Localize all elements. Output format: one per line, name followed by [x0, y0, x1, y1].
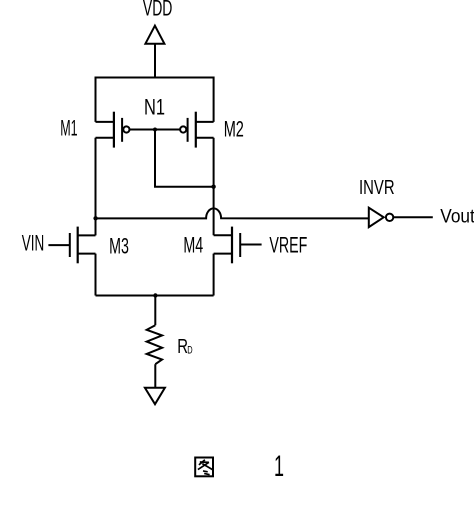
svg-text:VREF: VREF [269, 232, 307, 257]
svg-text:1: 1 [274, 450, 284, 483]
svg-text:INVR: INVR [359, 176, 395, 199]
svg-text:VDD: VDD [143, 0, 173, 21]
svg-text:M1: M1 [60, 115, 77, 140]
svg-text:M4: M4 [183, 233, 203, 258]
svg-text:D: D [187, 345, 192, 357]
svg-text:VIN: VIN [22, 230, 45, 255]
svg-text:N1: N1 [144, 94, 165, 119]
svg-text:M2: M2 [224, 117, 244, 142]
svg-text:M3: M3 [109, 234, 129, 259]
svg-text:Vout: Vout [440, 206, 474, 228]
